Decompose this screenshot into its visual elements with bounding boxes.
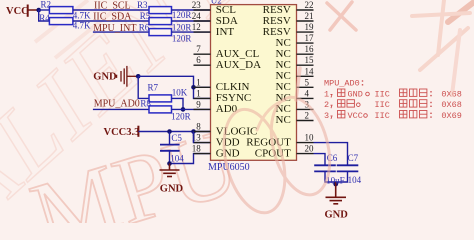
annotation note red text block	[324, 79, 462, 121]
pin 4 stub	[297, 97, 314, 99]
wire C5 stem bottom	[169, 151, 171, 164]
line3 period	[357, 103, 361, 107]
note CJK glyphs	[331, 80, 432, 119]
svg-text:104: 104	[170, 154, 184, 164]
svg-text:24: 24	[192, 11, 202, 21]
ground symbol GND left	[160, 164, 180, 177]
svg-text:R4: R4	[39, 13, 50, 23]
node VCC junction	[36, 8, 41, 13]
capacitor C5	[160, 145, 180, 151]
line4 jie	[338, 111, 345, 118]
svg-text:R5: R5	[140, 11, 151, 21]
svg-text:1: 1	[324, 89, 329, 99]
svg-text:23: 23	[192, 0, 202, 10]
pin 20 CPOUT stub	[297, 153, 314, 155]
wire R6 to pin INT	[172, 31, 211, 33]
node bottom GND junction	[333, 182, 338, 187]
pin 10 REGOUT stub	[297, 142, 314, 144]
pin 11 FSYNC stub	[194, 97, 211, 99]
svg-text:14: 14	[305, 66, 315, 76]
wire R4 to R5 net IIC_SDA	[73, 20, 149, 22]
line3 colon	[430, 102, 432, 107]
line4 comma	[331, 116, 333, 119]
wire GND pin to C5	[170, 154, 211, 164]
svg-text:GND: GND	[348, 89, 363, 99]
pin 24 SDA stub	[194, 20, 211, 22]
svg-text:20: 20	[305, 144, 315, 154]
svg-text:7: 7	[196, 44, 201, 54]
pin 13 VDD stub	[194, 142, 211, 144]
svg-text:4.7K: 4.7K	[73, 10, 91, 20]
wire GND down to R7	[138, 76, 149, 98]
line2 wei	[420, 89, 427, 96]
node AD0 junction	[181, 107, 186, 112]
wire GND to CLKIN/FSYNC vertical	[138, 76, 210, 98]
svg-text:104: 104	[348, 175, 362, 185]
svg-text:VCC3.3: VCC3.3	[104, 127, 140, 138]
node C5 branch junction	[167, 129, 172, 134]
wire C5 stem top	[169, 132, 171, 145]
right pins stubs	[297, 10, 314, 154]
capacitor C6	[314, 165, 336, 171]
line3 wei	[420, 100, 427, 107]
svg-text:19: 19	[305, 22, 315, 32]
wire net MPU_INT	[93, 31, 149, 33]
wire net MPU_AD0	[93, 108, 149, 110]
pin 5 stub	[297, 86, 314, 88]
svg-text:R3: R3	[137, 0, 148, 10]
svg-text:15: 15	[305, 55, 315, 65]
svg-text:10K: 10K	[172, 88, 188, 98]
line3 comma	[331, 105, 333, 108]
pin 19 stub	[297, 31, 314, 33]
line4 wei	[420, 111, 427, 118]
node C5 ground junction	[167, 161, 172, 166]
wire VCC down to R4	[39, 10, 50, 21]
line2 jie	[338, 89, 345, 96]
wire R5 to pin SDA	[172, 20, 211, 22]
wire VCC to R2	[39, 9, 50, 11]
svg-text:R6: R6	[139, 23, 150, 33]
wire VCC3.3 to VLOGIC	[138, 131, 210, 133]
svg-text:6: 6	[196, 55, 201, 65]
svg-text:120R: 120R	[172, 33, 192, 43]
wire R7 to AD0 net	[172, 98, 184, 109]
line1 colon	[362, 80, 364, 85]
svg-text:3: 3	[324, 111, 329, 121]
resistor R4	[49, 18, 73, 25]
right pin names	[246, 4, 291, 160]
svg-text:IIC: IIC	[375, 100, 390, 110]
pin 7 AUX_CL stub	[194, 53, 211, 55]
line2 zhi	[410, 89, 417, 96]
svg-text:VCC: VCC	[6, 6, 29, 17]
pin 23 SCL stub	[194, 9, 211, 11]
svg-text:8: 8	[196, 122, 201, 132]
svg-text:VCC: VCC	[348, 111, 363, 121]
svg-text:IIC_SCL: IIC_SCL	[94, 1, 131, 12]
svg-text:5: 5	[305, 77, 310, 87]
line2 period	[366, 92, 370, 96]
wire R3 to pin SCL	[172, 9, 211, 11]
svg-text:1: 1	[196, 77, 201, 87]
svg-text:22: 22	[305, 0, 314, 10]
capacitor C7	[337, 165, 359, 171]
svg-text:9: 9	[196, 99, 201, 109]
svg-text:17: 17	[305, 33, 315, 43]
line4 colon	[430, 113, 432, 118]
svg-text:16: 16	[305, 44, 315, 54]
pin 1 CLKIN stub	[194, 86, 211, 88]
pin 6 AUX_DA stub	[194, 64, 211, 66]
svg-text:C7: C7	[348, 153, 359, 163]
svg-text:0X69: 0X69	[441, 111, 461, 121]
node GND junction	[136, 74, 141, 79]
line2 di	[400, 89, 407, 96]
resistor R7	[149, 95, 172, 102]
left pin names	[216, 4, 261, 160]
svg-text:AUX_DA: AUX_DA	[216, 59, 261, 71]
svg-text:GND: GND	[160, 183, 184, 194]
pin 14 stub	[297, 75, 314, 77]
line3 kong	[347, 100, 354, 107]
power port VCC	[28, 5, 38, 17]
svg-text:MPU_INT: MPU_INT	[93, 23, 136, 34]
svg-text:4.7K: 4.7K	[73, 21, 91, 31]
svg-text:12: 12	[192, 22, 201, 32]
line4 period	[364, 114, 368, 118]
resistor R6	[149, 29, 172, 36]
pin 21 stub	[297, 20, 314, 22]
svg-text:4: 4	[305, 88, 310, 98]
svg-text:1: 1	[196, 88, 201, 98]
pin 16 stub	[297, 53, 314, 55]
resistor R5	[149, 18, 172, 25]
svg-text:MPU_AD0: MPU_AD0	[324, 79, 360, 89]
svg-text:2: 2	[305, 111, 310, 121]
line3 di	[400, 100, 407, 107]
svg-text:GND: GND	[93, 72, 117, 83]
ground symbol GND bottom	[326, 182, 347, 204]
svg-text:NC: NC	[276, 114, 291, 126]
node VDD branch junction	[191, 129, 196, 134]
resistor R3	[149, 7, 172, 14]
pin 12 INT stub	[194, 31, 211, 33]
left pin numbers	[192, 0, 202, 154]
watermark underlay	[0, 0, 361, 240]
svg-text:GND: GND	[216, 147, 240, 159]
power port VCC3.3	[137, 126, 139, 137]
watermark overlay strokes	[214, 0, 474, 220]
resistor R8	[149, 106, 172, 113]
pin 17 stub	[297, 42, 314, 44]
svg-text:IIC: IIC	[375, 89, 390, 99]
line3 zhi	[410, 100, 417, 107]
right pin numbers	[305, 0, 315, 154]
line4 zhi	[410, 111, 417, 118]
node CLKIN junction	[191, 85, 196, 90]
ground symbol GND top	[117, 66, 137, 87]
pin 18 GND stub	[194, 153, 211, 155]
svg-text:2: 2	[324, 100, 329, 110]
line4 di	[400, 111, 407, 118]
svg-text:C5: C5	[171, 133, 182, 143]
pin 9 AD0 stub	[194, 108, 211, 110]
wire CLKIN stub	[194, 86, 211, 88]
wire CPOUT to C6	[314, 154, 326, 165]
line3 xuan	[338, 100, 345, 107]
wire VDD branch	[194, 132, 211, 143]
svg-text:R2: R2	[41, 0, 52, 10]
svg-text:10: 10	[305, 133, 315, 143]
svg-text:21: 21	[305, 11, 314, 21]
pin 2 stub	[297, 120, 314, 122]
IC U2 MPU6050 body	[211, 5, 297, 161]
line2 colon	[430, 91, 432, 96]
wire REGOUT to C7	[314, 143, 348, 165]
left pins stubs	[194, 10, 211, 154]
svg-text:18: 18	[192, 144, 202, 154]
svg-text:MPU_AD0: MPU_AD0	[94, 99, 140, 110]
resistor R2	[49, 7, 73, 14]
svg-text:0X68: 0X68	[441, 100, 461, 110]
svg-text:R7: R7	[148, 82, 159, 92]
pin 22 stub	[297, 9, 314, 11]
wire C6 C7 bottoms join	[325, 172, 348, 182]
pin 8 VLOGIC stub	[194, 131, 211, 133]
svg-text:IIC: IIC	[375, 111, 390, 121]
svg-text:120R: 120R	[171, 111, 191, 121]
svg-text:IIC_SDA: IIC_SDA	[93, 12, 132, 23]
svg-text:120R: 120R	[172, 22, 192, 32]
pin 15 stub	[297, 64, 314, 66]
wire R8 to pin AD0	[172, 108, 211, 110]
svg-text:120R: 120R	[172, 10, 192, 20]
wire VDD branch overlay	[193, 132, 195, 143]
pin 3 stub	[297, 108, 314, 110]
line2 comma	[331, 95, 333, 98]
svg-text:GND: GND	[325, 209, 349, 220]
wire R2 to R3 net IIC_SCL	[73, 9, 149, 11]
svg-text:INT: INT	[216, 26, 235, 38]
